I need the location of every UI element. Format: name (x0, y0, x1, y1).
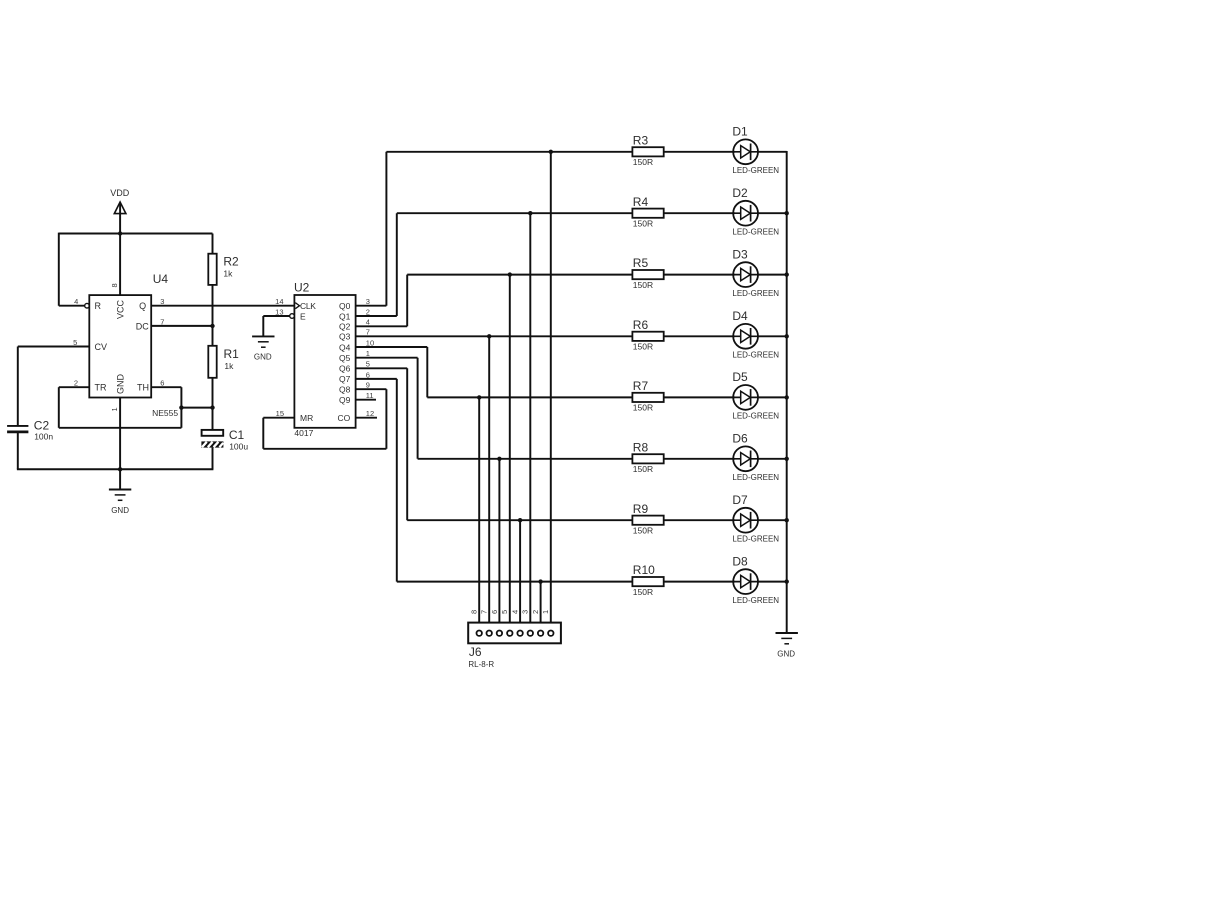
designator J6 (469, 645, 482, 659)
wire 555 TR loop (59, 387, 182, 428)
junction rail row 2 (785, 211, 789, 215)
value label 4017 (294, 428, 313, 438)
designator D8 (732, 554, 748, 568)
pin number 5 (Q6) (366, 360, 370, 369)
wire Q7 to row 8 riser (356, 379, 397, 582)
svg-text:LED-GREEN: LED-GREEN (732, 289, 779, 298)
value label 150R (R8) (633, 464, 653, 474)
svg-text:150R: 150R (633, 218, 653, 228)
svg-text:LED-GREEN: LED-GREEN (732, 166, 779, 175)
ground symbol (555) (119, 469, 121, 489)
svg-text:GND: GND (777, 649, 795, 658)
svg-text:U4: U4 (153, 272, 169, 286)
wire row 3 LED to rail (757, 274, 787, 276)
wire J6 column pin 6 from row 6 (498, 459, 500, 630)
svg-text:D7: D7 (732, 493, 748, 507)
wire J6 column pin 8 from row 5 (478, 397, 480, 629)
LED D1 (733, 139, 758, 164)
value label 150R (R9) (633, 525, 653, 535)
wire 555 TH stub (151, 386, 181, 388)
clock input marker U2 CLK (295, 303, 299, 309)
pin number 1 (J6, rotated) (541, 610, 550, 614)
svg-text:1k: 1k (223, 268, 233, 278)
pin name Q8 (339, 385, 351, 395)
svg-text:Q: Q (139, 301, 146, 311)
junction rail row 7 (785, 518, 789, 522)
pin name Q5 (339, 353, 351, 363)
wire row 7 resistor to LED (664, 519, 735, 521)
svg-text:Q4: Q4 (339, 342, 351, 352)
connector J6 pin circle 4 (517, 631, 522, 636)
junction row 7 to J6 column (518, 518, 522, 522)
wire row 1 resistor to LED (664, 151, 735, 153)
connector J6 pin circle 6 (497, 631, 502, 636)
wire row 7 LED to rail (757, 519, 787, 521)
pin name MR (300, 413, 313, 423)
wire J6 column pin 4 from row 7 (519, 520, 521, 630)
connector J6 body (468, 623, 561, 644)
junction rail row 8 (785, 579, 789, 583)
svg-text:Q3: Q3 (339, 332, 351, 342)
wire LED cathode rail (786, 151, 788, 633)
svg-text:150R: 150R (633, 403, 653, 413)
LED D4 (733, 324, 758, 349)
svg-text:Q2: Q2 (339, 322, 351, 332)
designator R6 (633, 318, 649, 332)
wire row 4 left segment (356, 335, 633, 337)
timer IC U4 (NE555) body (89, 295, 151, 397)
wire row 6 LED to rail (757, 458, 787, 460)
pin number 12 (CO) (366, 409, 374, 418)
pin name E (300, 311, 306, 321)
junction bottom rail (118, 467, 122, 471)
wire row 6 resistor to LED (664, 458, 735, 460)
pin name Q9 (339, 395, 351, 405)
wire VCC stem to 555 pin 8 (119, 234, 121, 296)
designator D4 (732, 309, 748, 323)
svg-text:LED-GREEN: LED-GREEN (732, 534, 779, 543)
svg-text:U2: U2 (294, 280, 310, 294)
resistor R6 (632, 332, 663, 341)
value label LED-GREEN (D2) (732, 227, 779, 236)
wire TH loop to C1 (181, 407, 212, 409)
svg-text:D8: D8 (732, 554, 748, 568)
pin number 2 (74, 379, 78, 388)
svg-text:LED-GREEN: LED-GREEN (732, 473, 779, 482)
wire row 7 left segment (407, 519, 632, 521)
LED D6 (733, 446, 758, 471)
junction row 2 to J6 column (528, 211, 532, 215)
pin name Q6 (339, 364, 351, 374)
designator D6 (732, 432, 748, 446)
wire 555 Q to U2 CLK (151, 305, 294, 307)
pin number 1 (Q5) (366, 349, 370, 358)
svg-text:TH: TH (137, 383, 149, 393)
wire E to ground (263, 316, 290, 336)
svg-text:GND: GND (111, 506, 129, 515)
designator D1 (732, 125, 748, 139)
pin number 8 (J6, rotated) (470, 610, 479, 614)
pin number 8 (555 VCC) (110, 283, 119, 287)
value label 150R (R3) (633, 157, 653, 167)
value label 150R (R5) (633, 280, 653, 290)
wire row 2 left segment (397, 212, 633, 214)
pin name TH (137, 383, 149, 393)
pin name R (95, 301, 102, 311)
svg-text:4: 4 (511, 610, 520, 614)
wire row 3 resistor to LED (664, 274, 735, 276)
junction R1/C1 node (210, 405, 214, 409)
value label 100n (34, 432, 53, 442)
svg-text:E: E (300, 311, 306, 321)
svg-text:R4: R4 (633, 195, 649, 209)
junction row 4 to J6 column (487, 334, 491, 338)
LED D7 (733, 508, 758, 533)
junction row 8 to J6 column (538, 579, 542, 583)
svg-text:NE555: NE555 (152, 408, 178, 418)
svg-text:100u: 100u (229, 441, 248, 451)
LED D2 (733, 201, 758, 226)
wire row 2 LED to rail (757, 212, 787, 214)
designator D3 (732, 247, 748, 261)
value label LED-GREEN (D5) (732, 412, 779, 421)
connector J6 pin circle 7 (487, 631, 492, 636)
svg-text:R6: R6 (633, 318, 649, 332)
pin number 14 (CLK) (275, 297, 283, 306)
wire row 5 left segment (427, 396, 632, 398)
svg-text:8: 8 (110, 283, 119, 287)
svg-text:D2: D2 (732, 186, 748, 200)
svg-text:R10: R10 (633, 563, 655, 577)
pin number 5 (J6, rotated) (500, 610, 509, 614)
ground label GND (LED rail) (777, 649, 795, 658)
capacitor C2 (7, 426, 28, 469)
pin number 2 (J6, rotated) (531, 610, 540, 614)
pin number 6 (J6, rotated) (490, 610, 499, 614)
svg-text:7: 7 (480, 610, 489, 614)
designator C2 (34, 419, 50, 433)
pin name Q2 (339, 322, 351, 332)
svg-text:5: 5 (500, 610, 509, 614)
svg-text:R9: R9 (633, 502, 649, 516)
resistor R8 (632, 454, 663, 463)
svg-text:1: 1 (110, 407, 119, 411)
pin name GND (rotated) (116, 374, 126, 395)
wire row 8 resistor to LED (664, 581, 735, 583)
wire Q5 to row 6 riser (356, 358, 418, 459)
value label LED-GREEN (D7) (732, 534, 779, 543)
svg-text:R3: R3 (633, 133, 649, 147)
ground label GND (555) (111, 506, 129, 515)
designator U4 (153, 272, 169, 286)
resistor R10 (632, 577, 663, 586)
value label 150R (R4) (633, 218, 653, 228)
svg-text:Q6: Q6 (339, 364, 351, 374)
pin name Q7 (339, 374, 351, 384)
svg-text:LED-GREEN: LED-GREEN (732, 412, 779, 421)
power symbol VDD (114, 202, 126, 234)
pin number 7 (Q3) (366, 328, 370, 337)
ground symbol (LED rail) (776, 633, 798, 644)
svg-text:J6: J6 (469, 645, 482, 659)
pin name DC (136, 321, 149, 331)
wire 555 GND pin stem (119, 398, 121, 470)
svg-text:D3: D3 (732, 247, 748, 261)
junction VDD rail at VCC stem (118, 231, 122, 235)
connector J6 pin circle 5 (507, 631, 512, 636)
designator R5 (633, 256, 649, 270)
wire bottom ground rail (17, 468, 214, 470)
junction row 3 to J6 column (508, 272, 512, 276)
svg-text:3: 3 (521, 610, 530, 614)
wire rail to 555 pin 4 (R) (59, 233, 85, 306)
svg-text:DC: DC (136, 321, 149, 331)
wire J6 column pin 5 from row 3 (509, 275, 511, 630)
pin name CO (338, 413, 351, 423)
wire row 3 left segment (407, 274, 632, 276)
designator D2 (732, 186, 748, 200)
resistor R3 (632, 147, 663, 156)
svg-text:VDD: VDD (110, 188, 130, 198)
svg-text:CV: CV (95, 342, 108, 352)
pin number 2 (Q1) (366, 307, 370, 316)
svg-text:GND: GND (116, 374, 126, 395)
pin name CLK (300, 301, 316, 311)
junction rail row 4 (785, 334, 789, 338)
pin number 11 (Q9) (366, 391, 374, 400)
pin number 6 (160, 379, 164, 388)
wire Q2 to row 3 riser (356, 275, 408, 327)
svg-text:150R: 150R (633, 587, 653, 597)
designator R8 (633, 440, 649, 454)
svg-text:C2: C2 (34, 419, 50, 433)
value label 150R (R10) (633, 587, 653, 597)
designator R9 (633, 502, 649, 516)
pin name Q0 (339, 301, 351, 311)
pin number 1 (555 GND) (110, 407, 119, 411)
svg-text:R5: R5 (633, 256, 649, 270)
svg-text:4017: 4017 (294, 428, 313, 438)
connector J6 pin circle 2 (538, 631, 543, 636)
junction rail row 6 (785, 457, 789, 461)
svg-text:Q8: Q8 (339, 385, 351, 395)
connector J6 pin circle 1 (548, 631, 553, 636)
ground symbol (U2 E) (252, 336, 274, 347)
junction rail row 3 (785, 272, 789, 276)
pin number 9 (Q8) (366, 381, 370, 390)
svg-text:150R: 150R (633, 342, 653, 352)
svg-text:GND: GND (254, 353, 272, 362)
pin number 10 (Q4) (366, 338, 374, 347)
svg-text:LED-GREEN: LED-GREEN (732, 596, 779, 605)
designator R4 (633, 195, 649, 209)
svg-text:150R: 150R (633, 157, 653, 167)
svg-text:R8: R8 (633, 440, 649, 454)
svg-text:CLK: CLK (300, 301, 316, 311)
pin number 3 (J6, rotated) (521, 610, 530, 614)
designator D7 (732, 493, 748, 507)
resistor R4 (632, 209, 663, 218)
designator D5 (732, 370, 748, 384)
svg-text:R1: R1 (224, 347, 240, 361)
svg-text:R7: R7 (633, 379, 649, 393)
wire 555 CV to C2 (18, 347, 90, 426)
value label 100u (229, 441, 248, 451)
pin number 7 (J6, rotated) (480, 610, 489, 614)
svg-text:1: 1 (541, 610, 550, 614)
resistor R2 (208, 234, 216, 346)
capacitor C1 (201, 430, 223, 469)
wire Q1 to row 2 riser (356, 213, 397, 316)
svg-text:RL-8-R: RL-8-R (468, 660, 494, 669)
svg-text:4: 4 (74, 297, 78, 306)
wire U2 MR to Q8 loop (263, 389, 386, 449)
designator R2 (223, 255, 239, 269)
designator R7 (633, 379, 649, 393)
wire row 4 LED to rail (757, 335, 787, 337)
svg-text:MR: MR (300, 413, 313, 423)
wire Q6 to row 7 riser (356, 368, 408, 520)
counter IC U2 (4017) body (294, 295, 355, 428)
inversion circle U2 pin E (290, 314, 295, 319)
svg-text:TR: TR (95, 383, 107, 393)
value label LED-GREEN (D1) (732, 166, 779, 175)
value label 150R (R7) (633, 403, 653, 413)
value label LED-GREEN (D4) (732, 351, 779, 360)
pin number 13 (E) (275, 307, 283, 316)
junction row 1 to J6 column (549, 150, 553, 154)
pin name TR (95, 383, 107, 393)
resistor R1 (208, 346, 216, 430)
designator R3 (633, 133, 649, 147)
value label NE555 (152, 408, 178, 418)
wire row 5 resistor to LED (664, 396, 735, 398)
pin name Q3 (339, 332, 351, 342)
pin number 3 (Q0) (366, 297, 370, 306)
designator U2 (294, 280, 310, 294)
svg-text:VCC: VCC (116, 299, 126, 319)
svg-text:Q1: Q1 (339, 311, 351, 321)
ground label GND (U2 E) (254, 353, 272, 362)
svg-text:Q5: Q5 (339, 353, 351, 363)
value label 150R (R6) (633, 342, 653, 352)
svg-text:Q9: Q9 (339, 395, 351, 405)
wire row 6 left segment (418, 458, 633, 460)
designator R1 (224, 347, 240, 361)
svg-text:150R: 150R (633, 464, 653, 474)
svg-text:150R: 150R (633, 280, 653, 290)
wire row 8 LED to rail (757, 581, 787, 583)
LED D8 (733, 569, 758, 594)
connector J6 pin circle 8 (477, 631, 482, 636)
wire J6 column pin 7 from row 4 (488, 336, 490, 630)
svg-text:100n: 100n (34, 432, 53, 442)
svg-text:Q0: Q0 (339, 301, 351, 311)
net label VDD (110, 188, 130, 198)
wire Q9 stub (356, 399, 376, 401)
junction TH loop (179, 405, 183, 409)
pin number 5 (73, 338, 77, 347)
junction row 5 to J6 column (477, 395, 481, 399)
wire row 2 resistor to LED (664, 212, 735, 214)
pin number 4 (74, 297, 78, 306)
designator R10 (633, 563, 655, 577)
pin number 6 (Q7) (366, 370, 370, 379)
junction rail row 5 (785, 395, 789, 399)
resistor R9 (632, 516, 663, 525)
junction row 6 to J6 column (497, 457, 501, 461)
svg-text:1k: 1k (224, 361, 234, 371)
value label 1k (R2) (223, 268, 233, 278)
svg-text:D1: D1 (732, 125, 748, 139)
pin number 4 (Q2) (366, 318, 370, 327)
junction R2/R1/DC (210, 324, 214, 328)
value label LED-GREEN (D8) (732, 596, 779, 605)
pin number 3 (160, 297, 164, 306)
pin name Q (139, 301, 146, 311)
wire J6 column pin 1 from row 1 (550, 152, 552, 630)
pin name VCC (rotated) (116, 299, 126, 319)
svg-text:Q7: Q7 (339, 374, 351, 384)
value label RL-8-R (468, 660, 494, 669)
svg-text:D6: D6 (732, 432, 748, 446)
wire row 1 left segment (386, 151, 632, 153)
svg-text:LED-GREEN: LED-GREEN (732, 227, 779, 236)
svg-text:D4: D4 (732, 309, 748, 323)
svg-text:2: 2 (531, 610, 540, 614)
pin number 15 (MR) (276, 409, 284, 418)
resistor R7 (632, 393, 663, 402)
wire row 8 left segment (397, 581, 633, 583)
svg-text:R2: R2 (223, 255, 239, 269)
wire VDD top rail (59, 233, 213, 235)
svg-text:C1: C1 (229, 428, 245, 442)
wire Q4 to row 5 riser (356, 347, 428, 397)
LED D5 (733, 385, 758, 410)
value label LED-GREEN (D6) (732, 473, 779, 482)
pin name Q4 (339, 342, 351, 352)
svg-text:6: 6 (490, 610, 499, 614)
wire 555 DC to R divider (151, 325, 212, 327)
wire J6 column pin 2 from row 8 (540, 582, 542, 630)
svg-text:CO: CO (338, 413, 351, 423)
pin name CV (95, 342, 108, 352)
pin name Q1 (339, 311, 351, 321)
designator C1 (229, 428, 245, 442)
wire row 4 resistor to LED (664, 335, 735, 337)
svg-text:R: R (95, 301, 102, 311)
value label LED-GREEN (D3) (732, 289, 779, 298)
svg-text:150R: 150R (633, 525, 653, 535)
wire Q0 to row 1 riser (356, 152, 387, 306)
svg-text:D5: D5 (732, 370, 748, 384)
wire row 1 LED to rail (757, 151, 787, 153)
svg-text:LED-GREEN: LED-GREEN (732, 351, 779, 360)
pin number 7 (160, 317, 164, 326)
wire row 5 LED to rail (757, 396, 787, 398)
pin number 4 (J6, rotated) (511, 610, 520, 614)
wire J6 column pin 3 from row 2 (529, 213, 531, 630)
wire CO stub (356, 417, 377, 419)
inversion circle 555 pin 4 (85, 303, 90, 308)
connector J6 pin circle 3 (528, 631, 533, 636)
svg-text:14: 14 (275, 297, 283, 306)
resistor R5 (632, 270, 663, 279)
value label 1k (R1) (224, 361, 234, 371)
LED D3 (733, 262, 758, 287)
svg-text:8: 8 (470, 610, 479, 614)
